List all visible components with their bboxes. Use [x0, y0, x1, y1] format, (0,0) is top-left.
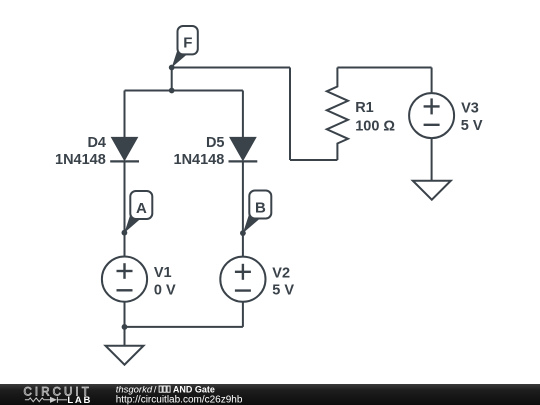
voltage source V2 [220, 257, 265, 302]
voltage source V1 [102, 257, 147, 302]
node F flag [172, 26, 198, 68]
wire D5 cathode to V2 top [242, 161, 244, 257]
ground (V3) [413, 181, 451, 200]
diode D5 [229, 137, 258, 161]
voltage source V3 [409, 93, 454, 138]
resistor R1 [327, 68, 348, 161]
wire F node to right corner [172, 67, 290, 69]
svg-text:R1: R1 [355, 100, 374, 116]
wire V3 top lead [431, 68, 433, 94]
svg-text:D5: D5 [206, 135, 225, 151]
node A flag [124, 191, 152, 233]
footer title: missing glyph boxes [159, 386, 170, 392]
svg-text:V2: V2 [272, 265, 290, 281]
wire D5 top lead [242, 91, 244, 139]
junction dot B [240, 230, 246, 236]
svg-text:1N4148: 1N4148 [174, 152, 225, 168]
svg-text:AND Gate: AND Gate [173, 384, 215, 394]
svg-text:F: F [183, 34, 192, 51]
diode D4 [110, 137, 139, 161]
junction dot V1-V2 bottom [122, 324, 128, 330]
svg-text:100 Ω: 100 Ω [355, 118, 395, 134]
wire V1 bottom to ground [124, 301, 126, 345]
logo diode symbol [50, 397, 57, 403]
wire V3 bottom lead to ground [431, 138, 433, 181]
svg-text:V1: V1 [154, 265, 172, 281]
wire V1 bottom to V2 bottom [125, 326, 243, 328]
wire D4 cathode to V1 top [124, 161, 126, 256]
svg-text:1N4148: 1N4148 [55, 152, 106, 168]
svg-text:V3: V3 [461, 100, 479, 116]
wire horizontal bus to diodes [125, 90, 243, 92]
svg-text:5 V: 5 V [272, 283, 294, 299]
node B flag [243, 191, 271, 234]
footer bar [0, 384, 540, 405]
wire F junction down [171, 68, 173, 91]
svg-text:B: B [255, 199, 266, 216]
junction dot A [122, 230, 128, 236]
wire to R1 bottom [290, 159, 337, 161]
wire down right side [289, 68, 291, 161]
ground (V1) [106, 346, 144, 365]
wire D4 top lead [124, 91, 126, 139]
logo waveform [25, 397, 67, 403]
svg-text:D4: D4 [87, 135, 106, 151]
svg-text:LAB: LAB [67, 395, 92, 405]
wire R1 top to V3 top [337, 67, 431, 69]
svg-text:http://circuitlab.com/c26z9hb: http://circuitlab.com/c26z9hb [116, 395, 243, 405]
svg-text:A: A [136, 200, 147, 217]
svg-text:5 V: 5 V [461, 118, 483, 134]
junction dot bus [169, 88, 175, 94]
svg-text:0 V: 0 V [154, 282, 176, 298]
wire V2 bottom lead [242, 302, 244, 327]
junction dot F [169, 65, 175, 71]
